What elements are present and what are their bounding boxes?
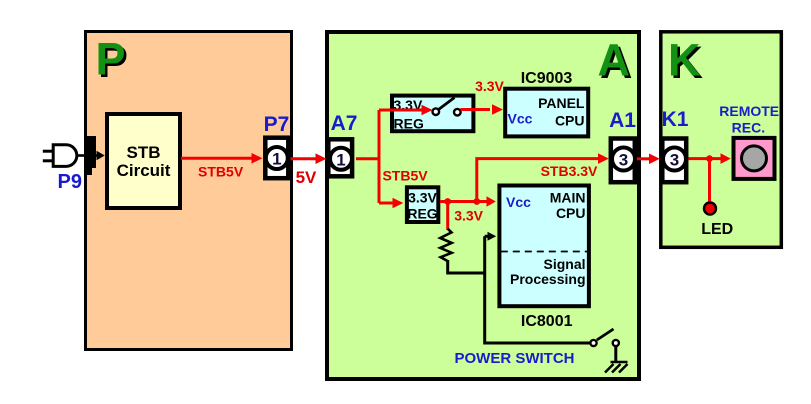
wire REG1 to PANEL CPU — [461, 104, 504, 115]
svg-text:PANEL: PANEL — [538, 95, 585, 111]
letter A — [598, 35, 633, 89]
svg-text:P9: P9 — [58, 171, 82, 193]
box K — [661, 32, 782, 248]
wire REG2 to MAIN CPU — [440, 196, 496, 230]
svg-text:3: 3 — [619, 151, 628, 170]
svg-text:3.3V: 3.3V — [408, 190, 437, 206]
svg-text:A7: A7 — [331, 112, 358, 135]
wire A7 to REG junction — [356, 105, 433, 209]
svg-text:A1: A1 — [609, 109, 636, 132]
svg-text:STB: STB — [127, 143, 161, 162]
STB circuit text — [117, 143, 171, 180]
resistor — [440, 229, 452, 261]
box P — [86, 32, 292, 350]
svg-text:POWER SWITCH: POWER SWITCH — [455, 350, 575, 367]
panel cpu IC9003 — [505, 89, 588, 137]
wire resistor to main cpu and power switch — [448, 232, 590, 343]
STB circuit box — [107, 114, 180, 208]
svg-text:Vcc: Vcc — [506, 194, 531, 210]
svg-text:Circuit: Circuit — [117, 161, 171, 180]
svg-text:IC8001: IC8001 — [521, 313, 573, 330]
svg-text:P: P — [96, 34, 126, 85]
svg-text:K: K — [668, 35, 701, 86]
connector A7 — [328, 139, 352, 176]
connector P7 — [265, 138, 288, 179]
svg-text:MAIN: MAIN — [550, 190, 586, 206]
box A — [327, 32, 639, 379]
svg-text:Vcc: Vcc — [508, 111, 533, 127]
svg-text:CPU: CPU — [555, 113, 585, 129]
svg-text:3: 3 — [670, 151, 679, 170]
regulator REG1 with switch — [392, 96, 473, 132]
svg-text:Signal: Signal — [543, 256, 585, 272]
connector K1 — [662, 139, 686, 183]
LED — [704, 203, 716, 215]
svg-text:A: A — [598, 35, 631, 86]
svg-text:REMOTE: REMOTE — [719, 103, 779, 119]
svg-text:STB3.3V: STB3.3V — [541, 163, 598, 179]
main cpu IC8001 — [499, 186, 589, 307]
letter K — [668, 35, 704, 89]
svg-text:REG: REG — [394, 115, 424, 131]
ground — [605, 347, 628, 373]
svg-text:STB5V: STB5V — [198, 164, 244, 180]
svg-text:3.3V: 3.3V — [454, 208, 483, 224]
svg-text:REG: REG — [407, 206, 437, 222]
svg-text:P7: P7 — [264, 113, 290, 136]
plug P9 — [43, 145, 87, 167]
svg-text:IC9003: IC9003 — [521, 70, 573, 87]
arrow into STB — [96, 151, 105, 160]
svg-text:REC.: REC. — [732, 119, 765, 135]
svg-text:LED: LED — [701, 221, 733, 238]
wire STB3.3V — [477, 153, 609, 201]
wire 5V — [291, 153, 327, 164]
svg-text:1: 1 — [336, 150, 345, 169]
svg-text:STB5V: STB5V — [382, 168, 428, 184]
svg-text:K1: K1 — [662, 108, 689, 131]
connector A1 — [611, 139, 635, 183]
regulator REG2 — [407, 187, 438, 222]
wire K1 to remote rec with LED branch — [688, 153, 730, 202]
label REMOTE REC. — [719, 103, 779, 136]
svg-text:3.3V: 3.3V — [475, 78, 504, 94]
wire STB5V — [181, 153, 263, 164]
power switch — [590, 329, 619, 346]
svg-text:5V: 5V — [296, 168, 317, 187]
svg-text:Processing: Processing — [510, 271, 585, 287]
wire A1 to K1 — [637, 154, 660, 165]
remote receiver — [734, 138, 775, 179]
letter P — [96, 34, 129, 88]
svg-text:CPU: CPU — [556, 205, 586, 221]
svg-text:1: 1 — [272, 150, 281, 169]
connector block on P border — [86, 136, 97, 175]
